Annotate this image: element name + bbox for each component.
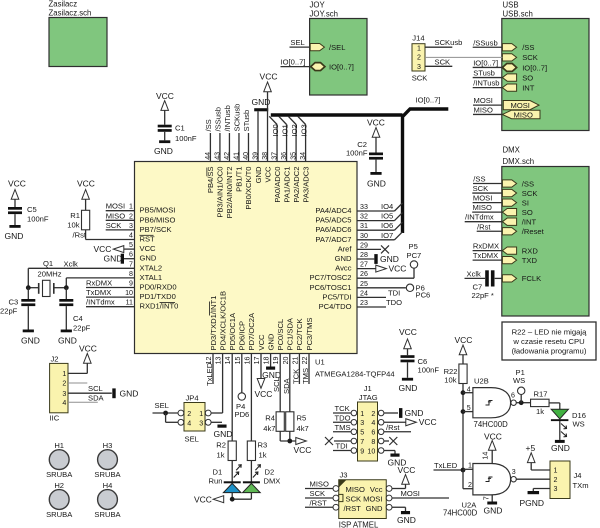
svg-text:PD6/ICP: PD6/ICP	[238, 321, 247, 351]
svg-text:TDI: TDI	[388, 288, 400, 297]
svg-text:R2: R2	[216, 441, 226, 450]
svg-text:IO7: IO7	[381, 231, 393, 240]
svg-text:3: 3	[417, 63, 421, 71]
svg-text:R3: R3	[258, 441, 268, 450]
wire U2A output to J4	[516, 478, 550, 480]
wire Xclk to DMX FCLK	[465, 277, 486, 279]
svg-text:TxDMX: TxDMX	[86, 288, 111, 297]
port FCLK of DMX	[502, 275, 516, 282]
capacitor C3	[27, 288, 29, 299]
svg-text:5: 5	[360, 429, 364, 437]
port MOSI of USB	[503, 101, 539, 110]
power VCC above J2	[84, 353, 92, 363]
wire J4 pin3 to PGND	[533, 488, 550, 490]
svg-text:SCKusb: SCKusb	[435, 38, 463, 47]
svg-text:RXD: RXD	[522, 246, 539, 255]
svg-text:19: 19	[272, 356, 280, 364]
svg-text:PC7: PC7	[407, 251, 422, 260]
svg-text:3: 3	[512, 468, 516, 476]
svg-text:4k7: 4k7	[263, 424, 275, 433]
svg-text:27: 27	[360, 261, 368, 269]
svg-text:SCK: SCK	[435, 57, 451, 66]
wire SCK from J14 pin3	[425, 65, 452, 67]
svg-text:1k: 1k	[259, 450, 267, 459]
svg-text:VCC: VCC	[367, 118, 385, 128]
svg-text:PD6: PD6	[235, 410, 250, 419]
svg-text:VCC: VCC	[389, 263, 407, 273]
svg-text:22pF: 22pF	[0, 307, 18, 316]
svg-text:PD5/OC1A: PD5/OC1A	[228, 312, 237, 350]
power VCC at J1 pin4	[406, 419, 417, 426]
wire pin 37 to bus (IO0)	[276, 125, 278, 162]
wire U2B output to R17	[516, 402, 530, 404]
svg-text:SCK: SCK	[346, 495, 362, 504]
svg-text:GND: GND	[21, 336, 40, 346]
ground at JP4 pin3	[217, 425, 226, 428]
svg-text:IO5: IO5	[381, 212, 393, 221]
svg-text:R22 – LED nie migają: R22 – LED nie migają	[512, 328, 588, 337]
ground at pin 28	[357, 258, 374, 260]
svg-text:U1: U1	[315, 358, 325, 367]
wire /SS to DMX	[473, 183, 502, 185]
capacitor C4	[65, 288, 67, 299]
svg-text:SCKusb: SCKusb	[233, 104, 242, 132]
svg-text:IO[0..7]: IO[0..7]	[522, 63, 547, 72]
wire U2A pin7 to ground	[491, 495, 493, 502]
svg-text:RXD1/INT0: RXD1/INT0	[140, 302, 179, 311]
junction node R5/VCC	[287, 439, 292, 444]
svg-text:PD4/XCLK/OC1B: PD4/XCLK/OC1B	[218, 291, 227, 351]
bus IO[0..7] corner and vertical	[403, 109, 449, 233]
svg-text:4: 4	[62, 399, 66, 407]
wire SEL to JP4 pin2	[153, 412, 179, 414]
port /Reset of DMX	[502, 228, 516, 235]
svg-text:SEL: SEL	[185, 435, 199, 444]
wire TxLED stub to U2A	[434, 469, 464, 471]
svg-text:C4: C4	[73, 314, 83, 323]
svg-text:6: 6	[511, 392, 515, 400]
svg-text:2: 2	[129, 212, 133, 220]
svg-text:TMS: TMS	[335, 423, 351, 432]
svg-text:23: 23	[360, 299, 368, 307]
svg-text:SEL: SEL	[290, 38, 304, 47]
svg-text:PC6: PC6	[416, 291, 431, 300]
svg-text:VCC: VCC	[77, 179, 95, 189]
svg-text:H4: H4	[103, 481, 113, 490]
svg-text:PB1/T1: PB1/T1	[235, 167, 244, 192]
svg-text:SRUBA: SRUBA	[94, 510, 121, 519]
svg-text:PB6/MISO: PB6/MISO	[140, 215, 176, 224]
svg-text:28: 28	[360, 251, 368, 259]
LED D1 (Run)	[231, 461, 233, 482]
svg-text:ISP ATMEL: ISP ATMEL	[339, 521, 379, 528]
wire R22 to U2B inputs	[462, 384, 464, 471]
wire R4 R5 to VCC	[279, 431, 281, 441]
svg-text:PGND: PGND	[520, 498, 545, 508]
wire SEL to JOY	[290, 46, 311, 48]
svg-text:9: 9	[129, 280, 133, 288]
wire MISO to J3	[305, 488, 333, 490]
port MISO of USB	[502, 110, 540, 119]
svg-text:Xclk: Xclk	[467, 269, 482, 278]
svg-text:PC3/TMS: PC3/TMS	[305, 318, 314, 351]
svg-text:SRUBA: SRUBA	[46, 470, 73, 479]
wire MOSI to USB	[473, 104, 502, 106]
svg-text:USB: USB	[503, 1, 519, 10]
wire TDI stub pin 24	[357, 296, 386, 298]
svg-text:3: 3	[360, 419, 364, 427]
svg-text:2: 2	[417, 54, 421, 62]
svg-text:20MHz: 20MHz	[38, 270, 62, 279]
svg-text:/Reset: /Reset	[522, 227, 545, 236]
wire pin8 XTAL1 to crystal	[66, 277, 134, 279]
resistor R1	[82, 210, 90, 230]
svg-text:PD0/RXD0: PD0/RXD0	[140, 283, 177, 292]
svg-text:8: 8	[129, 270, 133, 278]
svg-text:GND: GND	[5, 231, 24, 241]
svg-text:IO[0..7]: IO[0..7]	[416, 96, 441, 105]
svg-text:PA6/ADC6: PA6/ADC6	[315, 225, 351, 234]
svg-text:GND: GND	[399, 383, 418, 393]
wire TDI to J1 pin9	[333, 450, 351, 452]
capacitor C6	[407, 349, 409, 355]
LED D16 (WS)	[551, 409, 568, 419]
power VCC at pin 27 Avcc	[357, 268, 376, 270]
svg-text:SCK: SCK	[412, 73, 428, 82]
capacitor C5	[14, 199, 16, 207]
wire STusb to USB	[473, 77, 503, 79]
svg-text:PB0/XCK/T0: PB0/XCK/T0	[244, 167, 253, 210]
svg-text:H2: H2	[54, 481, 64, 490]
svg-text:3: 3	[554, 485, 558, 493]
svg-text:MOSI: MOSI	[511, 101, 530, 110]
svg-text:SI: SI	[522, 198, 529, 207]
svg-text:VCC: VCC	[398, 465, 416, 475]
junction node P1	[519, 400, 524, 405]
wire TCK stub pin 21	[298, 354, 300, 385]
wire pin 43 stub up	[219, 133, 221, 162]
junction node TxLED	[461, 468, 466, 473]
no-connect X at pin 29 Aref	[357, 248, 381, 250]
svg-text:/SS: /SS	[522, 179, 534, 188]
wire SCK to DMX	[472, 192, 502, 194]
svg-text:SO: SO	[522, 73, 533, 82]
svg-text:R5: R5	[297, 413, 307, 422]
wire MISO stub to pin 2	[106, 219, 135, 221]
port /SS of USB	[502, 44, 516, 51]
junction node SEL	[163, 411, 168, 416]
svg-text:XTAL2: XTAL2	[140, 263, 163, 272]
svg-text:14: 14	[481, 452, 489, 460]
svg-text:1: 1	[129, 203, 133, 211]
svg-text:GND: GND	[214, 429, 233, 439]
wire pin 14 to R2	[231, 354, 233, 442]
svg-text:30: 30	[360, 232, 368, 240]
svg-text:PC0/SCL: PC0/SCL	[276, 319, 285, 351]
power VCC at J3	[402, 475, 410, 485]
svg-text:7: 7	[129, 260, 133, 268]
svg-text:U2B: U2B	[474, 377, 489, 386]
svg-text:SO: SO	[522, 208, 533, 217]
svg-text:/SS: /SS	[473, 175, 485, 184]
svg-text:w czasie resetu CPU: w czasie resetu CPU	[512, 337, 584, 346]
port RXD of DMX	[502, 247, 516, 254]
svg-text:IIC: IIC	[50, 414, 60, 423]
svg-text:GND: GND	[367, 179, 386, 189]
wire pin 44 stub up	[209, 133, 211, 162]
svg-text:PA5/ADC5: PA5/ADC5	[315, 216, 351, 225]
svg-text:100nF: 100nF	[346, 149, 368, 158]
svg-text:PB3/AIN1/OC0: PB3/AIN1/OC0	[216, 167, 225, 218]
svg-text:VCC: VCC	[79, 344, 97, 354]
svg-text:PC6/TOSC1: PC6/TOSC1	[309, 283, 351, 292]
svg-text:R17: R17	[534, 389, 548, 398]
svg-text:MISO: MISO	[473, 203, 493, 212]
svg-text:3: 3	[62, 390, 66, 398]
wire RxDMX stub to pin 9	[86, 287, 135, 289]
logic gate U2B 74HC00D	[463, 392, 473, 394]
IC U1 ATMEGA1284 body	[135, 162, 358, 354]
svg-text:IO[0..7]: IO[0..7]	[473, 58, 498, 67]
svg-text:GND: GND	[154, 146, 173, 156]
svg-text:6: 6	[371, 429, 375, 437]
wire TxDMX stub to pin 10	[86, 296, 135, 298]
svg-text:11: 11	[126, 299, 133, 307]
svg-text:IO[0..7]: IO[0..7]	[281, 58, 306, 67]
svg-text:4: 4	[187, 419, 191, 427]
port IO[0..7] of USB	[502, 64, 516, 72]
svg-text:TCK: TCK	[335, 404, 350, 413]
power VCC at pin 38	[267, 92, 269, 162]
svg-text:PD1/TXD0: PD1/TXD0	[140, 292, 176, 301]
svg-text:MOSI: MOSI	[473, 194, 492, 203]
svg-text:3: 3	[199, 419, 203, 427]
ground below C4	[61, 330, 72, 333]
wire pin 19 SCL to R4	[279, 354, 281, 412]
svg-text:MOSI: MOSI	[401, 489, 420, 498]
wire pin 30 to bus (IO7)	[357, 239, 395, 241]
wire TMS to J1 pin5	[333, 431, 351, 433]
svg-text:13: 13	[215, 356, 223, 364]
svg-text:/INTdmx: /INTdmx	[465, 213, 494, 222]
svg-text:P5: P5	[409, 242, 418, 251]
svg-text:/SEL: /SEL	[329, 43, 345, 52]
svg-text:RST: RST	[140, 235, 156, 244]
svg-text:Avcc: Avcc	[335, 264, 352, 273]
svg-text:TCK: TCK	[291, 369, 300, 384]
svg-text:2: 2	[62, 380, 66, 388]
svg-text:JOY: JOY	[310, 1, 326, 10]
svg-text:WS: WS	[573, 419, 585, 428]
svg-text:7: 7	[360, 438, 364, 446]
wire J1 pin4 to VCC	[384, 421, 406, 423]
connector J4 TXm	[550, 461, 570, 499]
svg-text:PC7/TOSC2: PC7/TOSC2	[309, 273, 351, 282]
wire MISO to USB	[473, 113, 502, 115]
wire /Rst to DMX	[477, 230, 503, 232]
wire to U2A pin2	[462, 470, 464, 489]
port TXD of DMX	[502, 257, 516, 264]
svg-text:VCC: VCC	[484, 432, 502, 442]
svg-text:TxDMX: TxDMX	[473, 251, 498, 260]
test point P1	[520, 395, 522, 403]
svg-text:DMX: DMX	[503, 146, 521, 155]
svg-text:6: 6	[129, 251, 133, 259]
svg-text:FCLK: FCLK	[522, 274, 541, 283]
svg-text:IO6: IO6	[381, 221, 393, 230]
svg-text:PC1/SDA: PC1/SDA	[286, 317, 295, 350]
wire pin7 XTAL2 to crystal	[28, 267, 134, 269]
svg-text:C3: C3	[9, 298, 19, 307]
junction node U2B pin4	[461, 390, 466, 395]
port /SEL of JOY	[310, 43, 324, 50]
svg-text:10k: 10k	[67, 221, 79, 230]
svg-text:2: 2	[371, 410, 375, 418]
svg-text:Zasilacz: Zasilacz	[49, 0, 78, 9]
svg-text:VCC: VCC	[194, 495, 212, 505]
wire /INTdmx stub to pin 11	[86, 306, 135, 308]
wire J3 Vcc pin to VCC	[392, 488, 406, 490]
svg-text:SEL: SEL	[155, 401, 169, 410]
svg-text:MOSI: MOSI	[474, 96, 493, 105]
junction node at C3	[26, 285, 31, 290]
svg-text:VCC: VCC	[419, 417, 437, 427]
svg-text:/SSusb: /SSusb	[473, 38, 497, 47]
svg-text:TXD: TXD	[522, 256, 538, 265]
svg-text:RxDMX: RxDMX	[86, 279, 112, 288]
wire TxLED stub pin 12	[212, 354, 214, 385]
port SCK of USB	[502, 54, 516, 61]
svg-text:J14: J14	[412, 33, 424, 42]
wire MOSI from J3	[392, 497, 449, 499]
capacitor C7	[485, 270, 489, 286]
svg-text:3: 3	[129, 222, 133, 230]
svg-text:USB.sch: USB.sch	[503, 10, 533, 19]
wire TxDMX to DMX	[473, 259, 503, 261]
svg-text:VCC: VCC	[8, 179, 26, 189]
svg-text:TDI: TDI	[336, 442, 348, 451]
svg-text:SCK: SCK	[106, 221, 122, 230]
wire TDO to J1 pin3	[333, 421, 351, 423]
svg-text:J1: J1	[364, 384, 372, 393]
port /INT of DMX	[502, 218, 516, 225]
svg-text:Xclk: Xclk	[64, 259, 79, 268]
svg-text:GND: GND	[120, 388, 139, 398]
svg-text:J4: J4	[574, 471, 582, 480]
svg-text:22: 22	[301, 356, 309, 364]
resistor R22	[459, 364, 467, 384]
ground below C2	[370, 172, 381, 175]
svg-text:2: 2	[554, 476, 558, 484]
resistor R4	[276, 412, 284, 432]
svg-text:GND: GND	[266, 333, 275, 350]
svg-text:PD7/OC2A: PD7/OC2A	[247, 312, 256, 350]
wire TDO stub pin 23	[357, 306, 386, 308]
svg-text:1: 1	[554, 467, 558, 475]
svg-text:100nF: 100nF	[175, 134, 197, 143]
wire pin 40 stub up	[247, 133, 249, 162]
svg-text:IO0: IO0	[271, 124, 280, 136]
svg-text:STusb: STusb	[242, 110, 251, 132]
wire SCKusb from J14 pin1	[425, 46, 452, 48]
capacitor C1	[164, 110, 166, 124]
svg-text:4: 4	[371, 419, 375, 427]
svg-text:14: 14	[224, 356, 232, 364]
svg-text:1: 1	[468, 462, 472, 470]
ground at J3	[401, 511, 410, 514]
wire pin 42 stub up	[228, 133, 230, 162]
wire U2A pin14 to VCC	[491, 450, 493, 463]
svg-text:D1: D1	[213, 468, 223, 477]
wire SCK stub to pin 3	[106, 229, 135, 231]
svg-text:10: 10	[367, 447, 375, 455]
svg-text:SDA: SDA	[88, 393, 105, 402]
svg-text:33: 33	[360, 203, 368, 211]
svg-text:J2: J2	[51, 355, 59, 364]
svg-text:1k: 1k	[536, 407, 544, 416]
svg-text:GND: GND	[366, 504, 383, 513]
svg-text:C2: C2	[357, 140, 367, 149]
wire TMS stub pin 22	[308, 354, 310, 385]
svg-text:SDA: SDA	[282, 377, 291, 394]
svg-text:9: 9	[360, 447, 364, 455]
svg-text:/SSusb: /SSusb	[214, 107, 223, 131]
svg-text:31: 31	[360, 222, 368, 230]
svg-text:VCC: VCC	[260, 72, 278, 82]
svg-text:29: 29	[360, 241, 368, 249]
svg-text:(ładowania programu): (ładowania programu)	[512, 347, 587, 356]
svg-text:WS: WS	[513, 376, 525, 385]
capacitor C2	[375, 137, 377, 152]
svg-text:20: 20	[282, 356, 290, 364]
svg-text:GND: GND	[484, 505, 503, 515]
port /SS of DMX	[502, 180, 516, 187]
svg-text:/INTusb: /INTusb	[473, 79, 499, 88]
wire pin 33 to bus (IO4)	[357, 210, 395, 212]
wire J14 pin2 to USB SCK port	[425, 56, 502, 58]
svg-text:IO3: IO3	[299, 124, 308, 136]
wire pin 34 to bus (IO3)	[305, 125, 307, 162]
wire J2 pin2	[68, 382, 87, 384]
svg-text:VCC: VCC	[263, 166, 272, 183]
svg-text:17: 17	[253, 356, 261, 364]
svg-text:PB5/MOSI: PB5/MOSI	[140, 206, 176, 215]
svg-text:8: 8	[371, 438, 375, 446]
svg-text:D2: D2	[265, 468, 275, 477]
svg-text:MOSI: MOSI	[106, 202, 125, 211]
wire /INTusb to USB	[473, 87, 503, 89]
wire MISO to DMX	[472, 211, 502, 213]
wire JP4 pin3 to ground	[211, 421, 222, 423]
svg-text:Aref: Aref	[338, 244, 353, 253]
ground at U2A pin7	[487, 502, 497, 505]
ground PGND	[528, 491, 540, 494]
svg-text:DMX.sch: DMX.sch	[503, 157, 535, 166]
port SO of DMX	[502, 209, 516, 216]
svg-text:18: 18	[263, 356, 271, 364]
svg-text:10: 10	[125, 289, 133, 297]
svg-text:/INT: /INT	[522, 218, 537, 227]
wire MOSI to DMX	[473, 202, 503, 204]
ground below D16	[555, 440, 565, 443]
svg-text:IO4: IO4	[381, 202, 393, 211]
svg-text:VCC: VCC	[399, 327, 417, 337]
svg-text:PD3/TXD1/INT1: PD3/TXD1/INT1	[209, 296, 218, 351]
power VCC at pin 5	[124, 248, 135, 250]
svg-text:/INTdmx: /INTdmx	[86, 298, 115, 307]
svg-text:IO[0..7]: IO[0..7]	[329, 62, 354, 71]
wire pin 20 SDA to R5	[289, 354, 291, 412]
